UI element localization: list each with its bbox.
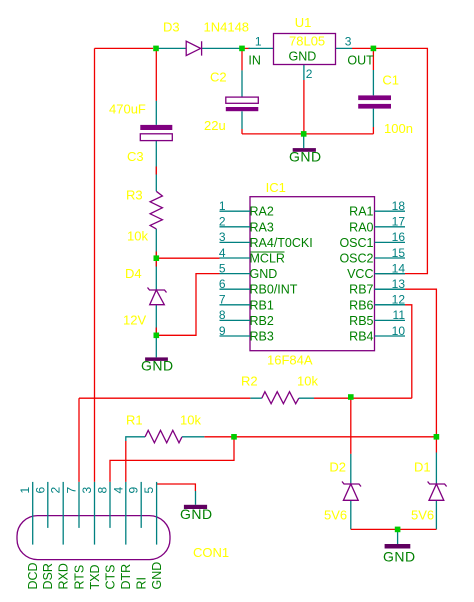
CON1 pin 5 line — [156, 482, 158, 545]
svg-text:10: 10 — [392, 324, 406, 338]
svg-text:RA0: RA0 — [349, 220, 373, 234]
svg-text:10k: 10k — [180, 413, 201, 428]
svg-text:D4: D4 — [125, 266, 142, 281]
svg-text:14: 14 — [392, 261, 406, 275]
svg-text:OUT: OUT — [347, 54, 374, 68]
svg-text:8: 8 — [219, 308, 226, 322]
wire D2 branch red — [350, 398, 352, 454]
capacitor C2 — [226, 97, 258, 111]
CON1 pin 3 line — [94, 482, 96, 545]
svg-text:15: 15 — [392, 246, 406, 260]
svg-text:RTS: RTS — [72, 565, 86, 590]
regulator U1 box — [274, 34, 336, 65]
wire D2 stubs teal — [350, 454, 352, 530]
IC1 right pin names — [339, 205, 373, 344]
CON1 pin 4 line — [125, 482, 127, 545]
wire RB7 net — [405, 289, 436, 437]
svg-text:C3: C3 — [127, 149, 144, 164]
junction at R1 right / CTS node — [231, 434, 237, 440]
svg-text:RB0/INT: RB0/INT — [250, 283, 298, 297]
svg-text:6: 6 — [33, 487, 47, 494]
svg-text:4: 4 — [219, 246, 226, 260]
svg-text:IN: IN — [248, 54, 261, 68]
wire D1 stubs teal — [435, 453, 437, 530]
wire R2 stubs teal — [250, 397, 314, 399]
svg-text:1: 1 — [255, 35, 262, 49]
wire D1 top red — [435, 437, 437, 453]
svg-text:VCC: VCC — [347, 267, 373, 281]
wire VCC pin stub — [375, 273, 406, 275]
svg-text:C2: C2 — [210, 70, 227, 85]
svg-text:5V6: 5V6 — [324, 508, 347, 523]
svg-text:11: 11 — [393, 308, 406, 322]
svg-text:RB7: RB7 — [349, 283, 373, 297]
wire U1 pin2 down red — [303, 80, 305, 134]
svg-text:CON1: CON1 — [193, 545, 229, 560]
wire RB6 pin stub — [375, 304, 406, 306]
zener diode D1 — [428, 482, 447, 501]
svg-text:9: 9 — [127, 487, 141, 494]
wire top rail left red — [95, 47, 154, 49]
svg-text:RB4: RB4 — [349, 330, 373, 344]
svg-text:GND: GND — [141, 358, 174, 374]
svg-text:DTR: DTR — [119, 564, 133, 590]
svg-text:5: 5 — [219, 261, 226, 275]
wire RB6 net — [405, 305, 412, 398]
junction at C3 top / supply rail — [153, 46, 159, 52]
junction at R2 / RB6 / D2 node — [348, 394, 354, 400]
junction at U1 OUT / C1 / VCC — [371, 46, 377, 52]
ground left of IC — [145, 357, 168, 361]
wire left tall vertical (TXD net) — [94, 48, 96, 482]
svg-text:16: 16 — [392, 230, 406, 244]
wire C2 top red — [241, 50, 243, 70]
wire C3 top red — [155, 50, 157, 101]
wire RB7 pin stub — [375, 288, 406, 290]
svg-text:5: 5 — [142, 487, 156, 494]
MCLR overline — [251, 251, 285, 253]
IC1 right pin stubs — [375, 211, 406, 336]
wire C2 bottom red — [241, 129, 243, 134]
svg-text:9: 9 — [219, 324, 226, 338]
zener diode D4 — [148, 288, 167, 305]
resistor R1 — [145, 430, 182, 443]
svg-text:78L05: 78L05 — [289, 34, 325, 49]
svg-text:TXD: TXD — [88, 565, 102, 590]
svg-text:12V: 12V — [123, 313, 146, 328]
ground bottom right — [385, 544, 411, 549]
svg-text:3: 3 — [80, 487, 94, 494]
wire U1 pin1 stub — [249, 47, 274, 49]
CON1 pin 9 line — [140, 482, 142, 528]
svg-text:IC1: IC1 — [266, 180, 286, 195]
svg-text:GND: GND — [289, 50, 317, 64]
wire gnd bottom stub teal — [397, 529, 399, 544]
wire junction to U1 pin1 red — [242, 47, 250, 49]
wire C1 top red — [372, 48, 374, 133]
svg-text:D3: D3 — [163, 20, 180, 35]
svg-text:RA1: RA1 — [349, 205, 373, 219]
junction at D1-D2 anode ground node — [395, 527, 401, 533]
svg-text:RI: RI — [135, 577, 149, 590]
diode D3 — [186, 41, 201, 55]
IC1 right pin numbers — [392, 199, 406, 338]
svg-text:CTS: CTS — [103, 565, 117, 590]
svg-text:C1: C1 — [382, 73, 399, 88]
svg-text:10k: 10k — [297, 374, 318, 389]
svg-text:5V6: 5V6 — [411, 508, 434, 523]
wire DTR down red — [125, 441, 127, 482]
svg-text:OSC1: OSC1 — [339, 236, 373, 250]
junction at D4 anode / GND node — [154, 333, 160, 339]
wire diode cathode to junction — [202, 47, 242, 49]
svg-text:12: 12 — [392, 293, 406, 307]
svg-text:2: 2 — [219, 215, 226, 229]
wire red dash C3-R3 — [155, 167, 157, 333]
svg-text:GND: GND — [150, 562, 164, 590]
svg-text:D1: D1 — [414, 460, 431, 475]
junction at D3 cathode / C2 / U1 IN — [239, 46, 245, 52]
wire RTS down red — [78, 398, 80, 482]
svg-text:16F84A: 16F84A — [267, 353, 313, 368]
svg-text:8: 8 — [96, 487, 110, 494]
CON1 pin 7 line — [78, 482, 80, 528]
connector CON1 body — [17, 516, 170, 560]
wire R1 right stub teal — [182, 436, 204, 438]
capacitor C3 — [140, 125, 172, 141]
svg-text:1: 1 — [219, 199, 226, 213]
svg-text:RA2: RA2 — [250, 205, 274, 219]
svg-text:6: 6 — [219, 277, 226, 291]
svg-text:1: 1 — [18, 487, 32, 494]
svg-text:OSC2: OSC2 — [339, 252, 373, 266]
svg-text:RB3: RB3 — [250, 330, 274, 344]
wire U1 pin2 stub — [303, 65, 305, 81]
svg-text:RA3: RA3 — [250, 220, 274, 234]
wire bottom rail red — [351, 528, 437, 530]
CON1 pin 8 line — [109, 482, 111, 528]
svg-text:DCD: DCD — [26, 562, 40, 589]
ground near connector — [184, 505, 207, 509]
svg-text:GND: GND — [180, 506, 213, 522]
wire C2 stubs teal — [241, 70, 243, 129]
junction at ground rail under U1 — [301, 131, 307, 137]
CON1 pin 2 line — [62, 482, 64, 545]
zener diode D2 — [342, 482, 361, 501]
wire U1 pin3 stub — [336, 47, 353, 49]
wire R1 left stub teal — [126, 437, 145, 441]
junction at R3 / D4 / MCLR node — [154, 255, 160, 261]
ground under U1 — [293, 148, 316, 152]
svg-text:GND: GND — [289, 149, 322, 165]
svg-text:18: 18 — [392, 199, 406, 213]
wire R1 right red to junction and rail y436 — [204, 436, 436, 438]
wire MCLR net — [156, 257, 219, 259]
wire gnd rail under U1 — [242, 133, 373, 135]
svg-text:RXD: RXD — [57, 563, 71, 589]
svg-text:R2: R2 — [241, 374, 258, 389]
svg-text:3: 3 — [345, 35, 352, 49]
IC1 box — [250, 197, 375, 351]
svg-text:1N4148: 1N4148 — [204, 20, 250, 35]
svg-text:7: 7 — [65, 487, 79, 494]
svg-text:R1: R1 — [126, 413, 143, 428]
CON1 pin 6 line — [47, 482, 49, 528]
svg-text:470uF: 470uF — [109, 102, 146, 117]
IC1 left pin stubs — [220, 211, 251, 336]
wire CTS path red — [110, 437, 234, 482]
wire C3 to R3 chain teal — [155, 101, 157, 358]
wire rail y398 red — [79, 397, 412, 399]
resistor R3 — [150, 191, 162, 229]
resistor R2 — [262, 392, 299, 404]
svg-text:2: 2 — [49, 487, 63, 494]
IC1 left pin names — [250, 205, 313, 344]
svg-text:2: 2 — [306, 67, 313, 81]
svg-text:13: 13 — [392, 277, 406, 291]
svg-text:4: 4 — [111, 487, 125, 494]
svg-text:RB2: RB2 — [250, 314, 274, 328]
wire U1 pin3 to VCC corner red — [352, 48, 427, 273]
svg-text:RB5: RB5 — [349, 314, 373, 328]
capacitor C1 — [358, 95, 391, 108]
junction at RB7 / D1 node — [434, 434, 440, 440]
svg-text:MCLR: MCLR — [250, 252, 285, 266]
svg-text:D2: D2 — [329, 460, 346, 475]
wire C1 stubs teal — [372, 70, 374, 127]
svg-text:3: 3 — [219, 230, 226, 244]
CON1 pin 1 line — [32, 482, 34, 545]
svg-text:22u: 22u — [204, 118, 226, 133]
wire conn pin5 to gnd red — [157, 484, 196, 491]
wire gnd conn stub teal — [195, 491, 197, 505]
IC1 left pin numbers — [219, 199, 226, 338]
svg-text:RA4/T0CKI: RA4/T0CKI — [250, 236, 313, 250]
svg-text:RB6: RB6 — [349, 298, 373, 312]
wire diode anode stub — [156, 47, 186, 49]
svg-text:7: 7 — [219, 293, 226, 307]
svg-text:10k: 10k — [127, 229, 148, 244]
svg-text:DSR: DSR — [41, 563, 55, 589]
wire D4 bottom to IC GND pin — [156, 274, 219, 336]
svg-text:100n: 100n — [384, 121, 413, 136]
svg-text:R3: R3 — [126, 188, 143, 203]
svg-text:GND: GND — [250, 267, 278, 281]
svg-text:GND: GND — [383, 549, 416, 565]
svg-text:RB1: RB1 — [250, 298, 274, 312]
wire gnd stub under U1 — [303, 136, 305, 148]
svg-text:U1: U1 — [295, 15, 312, 30]
svg-text:17: 17 — [392, 215, 406, 229]
